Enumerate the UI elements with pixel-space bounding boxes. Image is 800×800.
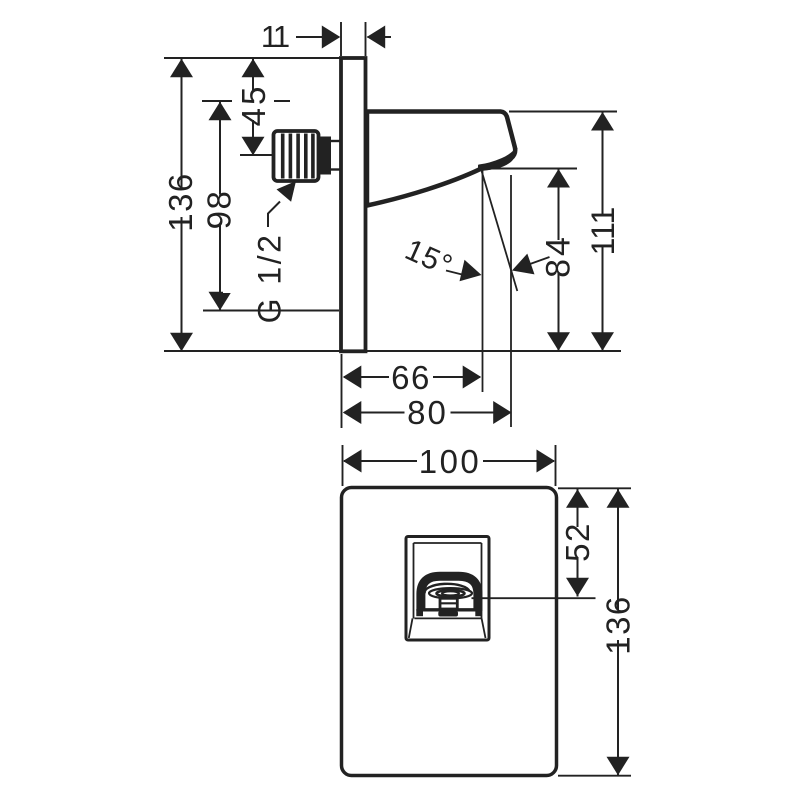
dimension 111 arrow down: [591, 332, 614, 351]
dimension 66 arrow left: [343, 366, 362, 389]
dimension 11 arrow right: [322, 26, 341, 49]
15 degree label: [400, 233, 458, 283]
svg-text:52: 52: [559, 522, 596, 562]
outlet tab: [440, 598, 457, 609]
extension line 136 right bottom: [558, 775, 631, 777]
extension line 45 bottom: [240, 154, 272, 156]
dimension 136 label (left): [143, 172, 217, 232]
G 1/2 leader line: [268, 202, 280, 228]
connector thread hatching: [283, 134, 313, 179]
dimension 100 label: [417, 443, 483, 480]
dimension 111 label: [573, 207, 633, 256]
dimension 66 line: [344, 376, 480, 378]
G 1/2 leader arrow: [277, 181, 297, 202]
extension line 84 top: [482, 168, 577, 170]
dimension 80 line: [344, 412, 511, 414]
spout opening outer frame: [406, 537, 489, 641]
15 degree stream line: [481, 169, 517, 291]
dimension 100 arrow left: [343, 450, 362, 473]
dimension 136 arrow down: [170, 333, 193, 352]
15 degree leader tail right: [530, 257, 550, 264]
15 degree arrow left: [460, 260, 482, 281]
svg-text:80: 80: [407, 394, 448, 431]
dimension 45 arrow down: [242, 137, 265, 156]
outlet tab mid line: [440, 602, 457, 604]
dimension 98 arrow up: [209, 102, 232, 121]
spout lip shading: [479, 149, 517, 170]
dimension 136 arrow up: [170, 59, 193, 77]
dimension 136 right line: [617, 489, 619, 775]
extension line 66/80 left: [341, 354, 343, 428]
dimension 52 line: [577, 489, 579, 597]
dimension 45 arrow up: [242, 59, 265, 77]
extension line 98 top: [202, 100, 290, 102]
svg-text:66: 66: [391, 359, 431, 396]
extension line 111 top: [509, 111, 617, 113]
dimension 52 arrow up: [566, 489, 589, 508]
recess floor right slant: [482, 618, 486, 638]
extension line 11 left: [340, 22, 342, 56]
opening sill line: [417, 608, 480, 611]
arch foot left: [416, 609, 423, 616]
dimension 84 label: [536, 234, 580, 278]
15 degree leader tail left: [446, 271, 462, 275]
extension line 11 right: [365, 22, 367, 56]
dimension 52 arrow down: [566, 578, 589, 597]
dimension 45 line: [252, 59, 254, 155]
threaded connector body (G 1/2): [274, 131, 319, 181]
outlet ellipse outer: [429, 588, 472, 598]
nose tip extension line: [510, 175, 512, 427]
dimension 136 line (left): [181, 59, 183, 351]
extension line (bottom of plate, left): [164, 350, 341, 352]
svg-text:84: 84: [540, 234, 578, 278]
sill shadow blob: [438, 611, 458, 617]
escutcheon plate (front view): [342, 488, 557, 776]
svg-text:136: 136: [599, 595, 636, 655]
connector collar ring: [319, 137, 332, 175]
dimension 11 line left: [296, 36, 339, 38]
extension line 100 right: [555, 445, 557, 486]
15 degree arrow right: [512, 254, 535, 275]
spout inner rim arc: [425, 584, 470, 594]
dimension 111 line: [602, 112, 604, 351]
dimension 98 line: [219, 102, 221, 310]
extension line (top of plate, left): [164, 57, 341, 59]
dimension 100 line: [344, 460, 554, 462]
dimension 45 label: [232, 84, 274, 127]
dimension 80 arrow right: [493, 401, 512, 424]
outlet centre leader line: [472, 597, 596, 599]
svg-text:45: 45: [235, 84, 272, 127]
svg-text:11: 11: [261, 19, 289, 54]
dimension 136 right label: [581, 595, 655, 655]
dimension 84 line: [558, 169, 560, 351]
dimension 98 label: [195, 190, 243, 230]
connector neck bottom line: [331, 168, 340, 170]
svg-text:100: 100: [419, 443, 482, 480]
dimension 111 arrow up: [591, 112, 614, 131]
extension line 100 left: [342, 445, 344, 486]
dimension 98 arrow down: [209, 292, 232, 311]
wall plate (side view): [341, 58, 366, 351]
dimension 80 label: [405, 394, 451, 431]
dimension 100 arrow right: [537, 450, 556, 473]
dimension 66 arrow right: [463, 366, 482, 389]
dimension 11 label: [257, 19, 291, 54]
recess inner top line: [414, 542, 482, 544]
dimension 11 line right: [368, 36, 392, 38]
extension line 52 top: [558, 487, 631, 489]
dimension 84 arrow down: [547, 332, 570, 351]
svg-text:G 1/2: G 1/2: [252, 233, 288, 324]
recess inner left line: [413, 543, 415, 619]
svg-text:98: 98: [200, 190, 237, 230]
recess inner right line: [481, 543, 483, 619]
dimension 52 label: [559, 522, 596, 562]
svg-text:136: 136: [162, 172, 199, 232]
connector neck top line: [331, 140, 340, 142]
spout (side view): [367, 112, 515, 206]
outlet ellipse centre: [442, 591, 459, 595]
dimension 80 arrow left: [343, 401, 362, 424]
G 1/2 label: [223, 233, 315, 324]
dimension 136 right arrow down: [607, 757, 630, 776]
recess floor line: [415, 617, 482, 619]
arch foot right: [475, 609, 482, 616]
outlet ellipse ring: [437, 590, 465, 596]
extension line (baseline, right of plate): [366, 350, 621, 352]
extension line 98 bottom: [203, 310, 339, 312]
svg-text:111: 111: [585, 207, 621, 256]
dimension 11 arrow left: [367, 26, 386, 49]
outlet vertical reference line: [482, 170, 484, 392]
dimension 66 label: [389, 359, 433, 396]
dimension 84 arrow up: [547, 169, 570, 188]
dimension 136 right arrow up: [607, 489, 630, 508]
spout arch (front view): [421, 576, 478, 611]
recess floor left slant: [409, 618, 413, 638]
